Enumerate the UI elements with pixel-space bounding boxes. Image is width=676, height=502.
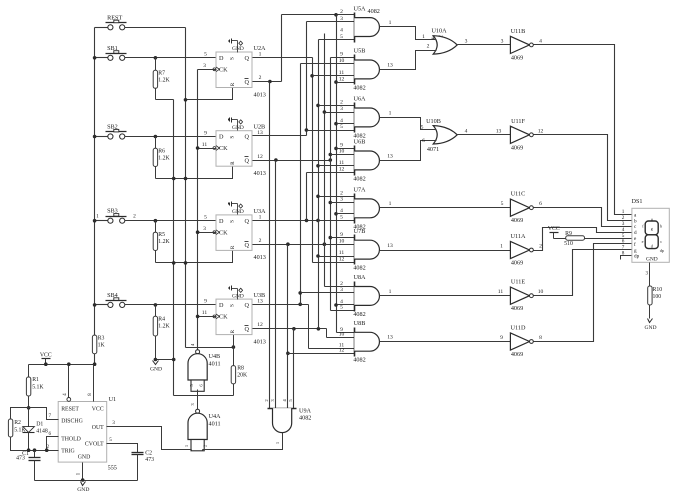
svg-text:9: 9 bbox=[340, 232, 343, 238]
svg-text:3: 3 bbox=[112, 420, 115, 426]
svg-text:13: 13 bbox=[387, 335, 393, 341]
svg-text:S: S bbox=[230, 136, 236, 139]
svg-text:a: a bbox=[651, 216, 653, 221]
svg-text:Q: Q bbox=[245, 79, 250, 86]
svg-text:Q: Q bbox=[245, 302, 250, 309]
svg-text:U7A: U7A bbox=[353, 187, 366, 194]
svg-text:13: 13 bbox=[387, 62, 393, 68]
svg-text:5.1K: 5.1K bbox=[32, 385, 44, 391]
svg-text:11: 11 bbox=[498, 289, 504, 295]
svg-text:2: 2 bbox=[340, 191, 343, 197]
svg-text:2: 2 bbox=[259, 75, 262, 81]
svg-text:U5A: U5A bbox=[353, 5, 366, 12]
svg-text:12: 12 bbox=[538, 128, 544, 134]
svg-text:dp: dp bbox=[634, 254, 640, 260]
svg-text:11: 11 bbox=[202, 310, 208, 316]
svg-text:S: S bbox=[230, 220, 236, 223]
svg-text:U11F: U11F bbox=[511, 118, 525, 125]
svg-text:510: 510 bbox=[564, 241, 573, 247]
svg-text:4013: 4013 bbox=[254, 254, 266, 261]
svg-text:R7: R7 bbox=[158, 70, 165, 76]
svg-text:VCC: VCC bbox=[548, 226, 560, 232]
svg-text:13: 13 bbox=[257, 299, 263, 305]
svg-text:4: 4 bbox=[539, 38, 542, 44]
svg-text:6: 6 bbox=[49, 431, 52, 437]
svg-text:5: 5 bbox=[340, 34, 343, 40]
svg-text:R: R bbox=[230, 82, 236, 86]
svg-text:CK: CK bbox=[219, 314, 228, 321]
svg-text:12: 12 bbox=[257, 322, 263, 328]
svg-text:3: 3 bbox=[340, 106, 343, 112]
svg-text:CK: CK bbox=[219, 229, 228, 236]
svg-text:DISCHG: DISCHG bbox=[61, 419, 83, 425]
svg-text:5: 5 bbox=[421, 124, 424, 130]
svg-text:CVOLT: CVOLT bbox=[85, 442, 104, 448]
svg-text:100: 100 bbox=[653, 294, 662, 300]
svg-text:Q: Q bbox=[245, 55, 250, 62]
svg-text:1: 1 bbox=[422, 34, 425, 40]
svg-text:9: 9 bbox=[340, 52, 343, 58]
svg-text:D: D bbox=[219, 218, 224, 225]
svg-text:R: R bbox=[230, 161, 236, 165]
svg-text:R8: R8 bbox=[237, 366, 244, 372]
svg-text:3: 3 bbox=[501, 39, 504, 45]
svg-text:8: 8 bbox=[622, 251, 625, 257]
svg-text:10: 10 bbox=[339, 58, 345, 64]
svg-text:GND: GND bbox=[150, 367, 162, 373]
svg-text:5: 5 bbox=[340, 215, 343, 221]
svg-text:U7B: U7B bbox=[354, 228, 366, 235]
svg-text:4: 4 bbox=[340, 208, 343, 214]
svg-text:4082: 4082 bbox=[353, 265, 365, 272]
svg-text:GND: GND bbox=[78, 455, 91, 461]
svg-text:SB2: SB2 bbox=[107, 124, 118, 131]
svg-text:2: 2 bbox=[340, 100, 343, 106]
svg-text:1: 1 bbox=[389, 110, 392, 116]
svg-text:4082: 4082 bbox=[368, 8, 380, 15]
svg-text:10: 10 bbox=[339, 332, 345, 338]
svg-text:OUT: OUT bbox=[92, 425, 104, 431]
svg-text:3: 3 bbox=[465, 39, 468, 45]
svg-text:1.2K: 1.2K bbox=[158, 155, 170, 161]
svg-text:4069: 4069 bbox=[511, 54, 523, 61]
svg-text:U1: U1 bbox=[109, 396, 117, 403]
svg-text:1: 1 bbox=[96, 213, 99, 219]
svg-text:Q: Q bbox=[245, 218, 250, 225]
svg-text:12: 12 bbox=[339, 257, 345, 263]
svg-text:1: 1 bbox=[259, 214, 262, 220]
svg-text:5: 5 bbox=[340, 305, 343, 311]
svg-text:Q: Q bbox=[245, 326, 250, 333]
svg-text:13: 13 bbox=[496, 128, 502, 134]
svg-text:4071: 4071 bbox=[427, 146, 439, 153]
svg-text:DS1: DS1 bbox=[631, 198, 642, 205]
svg-text:S: S bbox=[230, 57, 236, 60]
svg-text:2: 2 bbox=[340, 9, 343, 15]
svg-text:C2: C2 bbox=[145, 450, 152, 456]
svg-text:R: R bbox=[230, 329, 236, 333]
svg-text:3: 3 bbox=[340, 197, 343, 203]
svg-text:2: 2 bbox=[427, 44, 430, 50]
svg-text:555: 555 bbox=[108, 464, 117, 471]
svg-text:1: 1 bbox=[500, 244, 503, 250]
svg-text:1: 1 bbox=[389, 201, 392, 207]
svg-text:Q: Q bbox=[245, 134, 250, 141]
svg-text:Q: Q bbox=[245, 242, 250, 249]
svg-text:6: 6 bbox=[539, 201, 542, 207]
svg-text:4082: 4082 bbox=[353, 357, 365, 364]
svg-text:4082: 4082 bbox=[353, 311, 365, 318]
svg-text:D1: D1 bbox=[36, 422, 43, 428]
svg-text:R4: R4 bbox=[158, 316, 165, 322]
svg-text:VCC: VCC bbox=[40, 353, 52, 359]
svg-text:dp: dp bbox=[660, 248, 664, 253]
svg-text:9: 9 bbox=[204, 299, 207, 305]
svg-text:e: e bbox=[642, 239, 644, 244]
svg-text:3: 3 bbox=[340, 287, 343, 293]
svg-text:12: 12 bbox=[339, 348, 345, 354]
svg-text:10: 10 bbox=[339, 238, 345, 244]
svg-text:U11A: U11A bbox=[511, 233, 526, 240]
svg-text:12: 12 bbox=[339, 166, 345, 172]
svg-text:GND: GND bbox=[232, 293, 244, 299]
svg-text:6: 6 bbox=[422, 138, 425, 144]
svg-text:D: D bbox=[219, 55, 224, 62]
svg-text:20K: 20K bbox=[237, 373, 248, 379]
svg-text:S: S bbox=[230, 304, 236, 307]
svg-text:1: 1 bbox=[389, 20, 392, 26]
svg-text:SB3: SB3 bbox=[107, 208, 118, 215]
svg-text:9: 9 bbox=[340, 143, 343, 149]
svg-text:U11D: U11D bbox=[511, 325, 526, 332]
svg-text:4011: 4011 bbox=[209, 361, 221, 368]
svg-text:5: 5 bbox=[109, 437, 112, 443]
svg-text:GND: GND bbox=[646, 256, 658, 262]
svg-text:4069: 4069 bbox=[511, 305, 523, 312]
svg-text:5: 5 bbox=[340, 124, 343, 130]
svg-text:2: 2 bbox=[259, 238, 262, 244]
svg-text:U11B: U11B bbox=[511, 28, 526, 35]
svg-text:Q: Q bbox=[245, 158, 250, 165]
svg-text:RESET: RESET bbox=[61, 407, 79, 413]
svg-text:4013: 4013 bbox=[254, 170, 266, 177]
svg-text:TRIG: TRIG bbox=[61, 448, 75, 454]
svg-text:1: 1 bbox=[259, 51, 262, 57]
svg-text:3: 3 bbox=[203, 226, 206, 232]
svg-text:GND: GND bbox=[232, 125, 244, 131]
svg-text:11: 11 bbox=[202, 142, 208, 148]
svg-text:8: 8 bbox=[539, 335, 542, 341]
svg-text:CK: CK bbox=[219, 67, 228, 74]
svg-text:U4B: U4B bbox=[209, 353, 221, 360]
svg-text:4013: 4013 bbox=[254, 338, 266, 345]
svg-text:2: 2 bbox=[539, 244, 542, 250]
svg-text:U6B: U6B bbox=[354, 139, 366, 146]
svg-text:4: 4 bbox=[465, 128, 468, 134]
svg-text:4069: 4069 bbox=[511, 217, 523, 224]
svg-text:4: 4 bbox=[340, 118, 343, 124]
svg-text:4011: 4011 bbox=[209, 421, 221, 428]
svg-text:3: 3 bbox=[203, 63, 206, 69]
svg-text:1.2K: 1.2K bbox=[158, 323, 170, 329]
svg-text:4: 4 bbox=[340, 28, 343, 34]
svg-text:R10: R10 bbox=[653, 287, 663, 293]
svg-text:4069: 4069 bbox=[511, 260, 523, 267]
svg-text:GND: GND bbox=[232, 46, 244, 52]
svg-text:b: b bbox=[660, 224, 662, 229]
svg-text:1: 1 bbox=[389, 289, 392, 295]
svg-text:11: 11 bbox=[339, 250, 345, 256]
svg-text:VCC: VCC bbox=[92, 407, 104, 413]
svg-text:U11E: U11E bbox=[511, 279, 525, 286]
svg-text:R: R bbox=[230, 245, 236, 249]
svg-text:2: 2 bbox=[133, 213, 136, 219]
svg-text:13: 13 bbox=[387, 153, 393, 159]
svg-text:1K: 1K bbox=[98, 343, 106, 349]
svg-text:12: 12 bbox=[257, 154, 263, 160]
svg-text:THOLD: THOLD bbox=[61, 437, 81, 443]
svg-text:SB1: SB1 bbox=[107, 45, 118, 52]
svg-text:R5: R5 bbox=[158, 232, 165, 238]
svg-text:U5B: U5B bbox=[354, 48, 366, 55]
svg-text:473: 473 bbox=[145, 457, 154, 463]
svg-text:U10A: U10A bbox=[431, 28, 447, 35]
svg-text:REST: REST bbox=[107, 14, 122, 21]
svg-text:CK: CK bbox=[219, 145, 228, 152]
svg-text:GND: GND bbox=[232, 209, 244, 215]
svg-text:3: 3 bbox=[340, 16, 343, 22]
svg-text:SB4: SB4 bbox=[107, 292, 118, 299]
svg-text:4013: 4013 bbox=[254, 91, 266, 98]
svg-text:U8B: U8B bbox=[354, 320, 366, 327]
svg-text:U6A: U6A bbox=[353, 96, 366, 103]
svg-text:GND: GND bbox=[77, 487, 89, 493]
svg-text:4082: 4082 bbox=[299, 415, 311, 422]
svg-text:1.2K: 1.2K bbox=[158, 239, 170, 245]
svg-text:5: 5 bbox=[501, 201, 504, 207]
svg-text:13: 13 bbox=[387, 243, 393, 249]
svg-text:1.2K: 1.2K bbox=[158, 77, 170, 83]
svg-text:U9A: U9A bbox=[299, 408, 312, 415]
svg-text:4082: 4082 bbox=[353, 175, 365, 182]
svg-text:c: c bbox=[660, 239, 662, 244]
svg-text:R1: R1 bbox=[32, 377, 39, 383]
svg-text:12: 12 bbox=[339, 76, 345, 82]
svg-text:473: 473 bbox=[16, 456, 25, 462]
svg-text:11: 11 bbox=[339, 70, 345, 76]
svg-text:11: 11 bbox=[339, 160, 345, 166]
svg-text:7: 7 bbox=[49, 413, 52, 419]
svg-text:R3: R3 bbox=[98, 335, 105, 341]
svg-text:U11C: U11C bbox=[511, 191, 526, 198]
svg-text:4148: 4148 bbox=[36, 429, 48, 435]
svg-text:10: 10 bbox=[538, 289, 544, 295]
svg-text:GND: GND bbox=[644, 325, 656, 331]
svg-text:9: 9 bbox=[500, 335, 503, 341]
svg-text:5: 5 bbox=[204, 215, 207, 221]
svg-text:U4A: U4A bbox=[209, 413, 222, 420]
svg-text:4069: 4069 bbox=[511, 144, 523, 151]
svg-text:R6: R6 bbox=[158, 148, 165, 154]
svg-text:10: 10 bbox=[339, 149, 345, 155]
svg-text:D: D bbox=[219, 302, 224, 309]
svg-text:R2: R2 bbox=[14, 420, 21, 426]
svg-text:5: 5 bbox=[204, 52, 207, 58]
svg-text:U8A: U8A bbox=[353, 274, 366, 281]
svg-text:U10B: U10B bbox=[426, 118, 441, 125]
svg-text:2: 2 bbox=[47, 444, 50, 450]
svg-text:R9: R9 bbox=[565, 231, 572, 237]
svg-text:4082: 4082 bbox=[353, 84, 365, 91]
svg-text:4069: 4069 bbox=[511, 351, 523, 358]
svg-text:9: 9 bbox=[204, 130, 207, 136]
svg-text:D: D bbox=[219, 134, 224, 141]
